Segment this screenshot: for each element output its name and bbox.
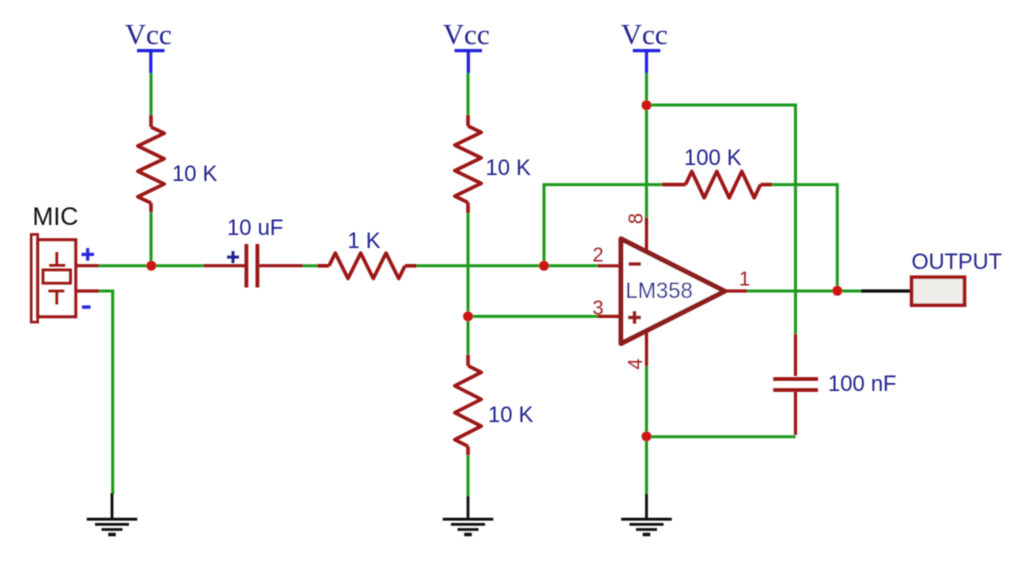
wire 100K to output node — [772, 185, 837, 291]
wire divider node to pin3 — [468, 315, 598, 318]
svg-text:1: 1 — [739, 269, 750, 291]
svg-text:10 K: 10 K — [172, 161, 218, 186]
svg-text:100 nF: 100 nF — [828, 371, 897, 396]
wire top node to pin8 — [645, 105, 648, 218]
resistor R4 1K — [317, 253, 416, 278]
wire pin1 to output node — [747, 290, 861, 293]
svg-text:10 K: 10 K — [488, 402, 534, 427]
svg-text:Vcc: Vcc — [125, 19, 172, 51]
pin MIC plus lead — [76, 264, 99, 267]
svg-text:4: 4 — [625, 358, 647, 369]
ground (op-amp) — [621, 494, 672, 535]
junction node (output) — [832, 286, 842, 296]
wire R1 to main node — [150, 212, 153, 266]
pin 1 lead — [725, 289, 747, 292]
svg-text:3: 3 — [593, 298, 604, 320]
capacitor C2 100nF — [773, 334, 818, 435]
op-amp U1 LM358 — [621, 239, 725, 344]
microphone minus mark — [82, 305, 91, 308]
microphone MIC body — [31, 234, 76, 322]
resistor R5 100K — [662, 171, 772, 197]
terminal OUTPUT box — [912, 277, 965, 305]
resistor R2 10K — [455, 115, 481, 213]
wire Vcc2 to R2 — [467, 73, 470, 115]
svg-text:MIC: MIC — [33, 203, 79, 231]
svg-text:10 uF: 10 uF — [227, 215, 283, 240]
svg-text:1 K: 1 K — [348, 228, 381, 253]
junction node (R1/main wire) — [146, 261, 156, 271]
junction node (Vcc3 top) — [642, 100, 652, 110]
svg-text:100 K: 100 K — [684, 145, 742, 170]
wire R3 to ground — [467, 455, 470, 497]
svg-text:8: 8 — [626, 213, 648, 224]
pin 8 lead — [645, 218, 648, 254]
wire R2 to divider node — [467, 213, 470, 355]
svg-text:LM358: LM358 — [626, 278, 693, 303]
svg-text:2: 2 — [593, 245, 604, 267]
wire Vcc3 to top node — [645, 73, 648, 105]
wire Vcc1 to R1 — [150, 73, 153, 115]
wire MIC plus to C1 — [99, 264, 204, 267]
svg-text:Vcc: Vcc — [621, 19, 668, 51]
ground (under MIC) — [87, 493, 138, 535]
polarity plus mark (C1) — [227, 251, 239, 263]
wire MIC minus to ground — [99, 291, 113, 494]
wire output stub — [861, 289, 912, 292]
microphone plus mark — [82, 248, 95, 261]
power symbol Vcc2 — [455, 51, 483, 73]
junction node (pin2) — [539, 261, 549, 271]
wire ground node to C2 bottom — [647, 435, 796, 438]
pin 4 lead — [645, 330, 648, 366]
op-amp plus mark — [628, 311, 641, 324]
pin 3 lead — [598, 315, 622, 318]
wire R4 to pin2 node — [417, 264, 598, 267]
svg-text:10 K: 10 K — [486, 155, 532, 180]
power symbol Vcc1 — [137, 51, 165, 73]
wire top node to bypass branch — [647, 105, 796, 334]
wire pin2 node up to feedback — [544, 185, 662, 266]
resistor R3 10K — [455, 355, 481, 455]
wire pin4 to ground node — [645, 366, 648, 494]
pin 2 lead — [598, 264, 622, 267]
junction node (divider) — [463, 311, 473, 321]
op-amp minus mark — [629, 262, 642, 266]
svg-text:OUTPUT: OUTPUT — [912, 249, 1002, 274]
junction node (pin4/ground) — [642, 431, 652, 441]
wire C1 to R4 — [303, 264, 317, 267]
pin MIC minus lead — [76, 289, 99, 292]
ground (divider) — [443, 496, 494, 535]
capacitor C1 10uF — [204, 244, 304, 288]
power symbol Vcc3 — [633, 51, 661, 73]
svg-text:Vcc: Vcc — [443, 19, 490, 51]
resistor R1 10K — [138, 115, 164, 212]
